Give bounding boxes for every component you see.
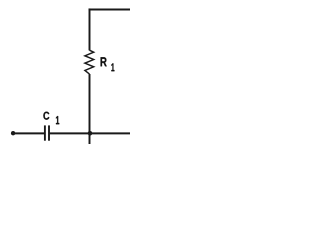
- junction node: [88, 131, 93, 136]
- resistor R1: [85, 50, 94, 74]
- label R1: [101, 57, 115, 71]
- wire from capacitor to junction and right edge: [50, 132, 130, 134]
- wire top horizontal: [89, 8, 130, 10]
- wire vertical below resistor: [89, 74, 91, 144]
- label C1: [43, 112, 59, 125]
- wire from terminal to capacitor: [13, 132, 44, 134]
- wire vertical from top corner to resistor: [89, 8, 91, 50]
- capacitor C1: [45, 125, 49, 140]
- terminal dot (input node): [11, 131, 15, 135]
